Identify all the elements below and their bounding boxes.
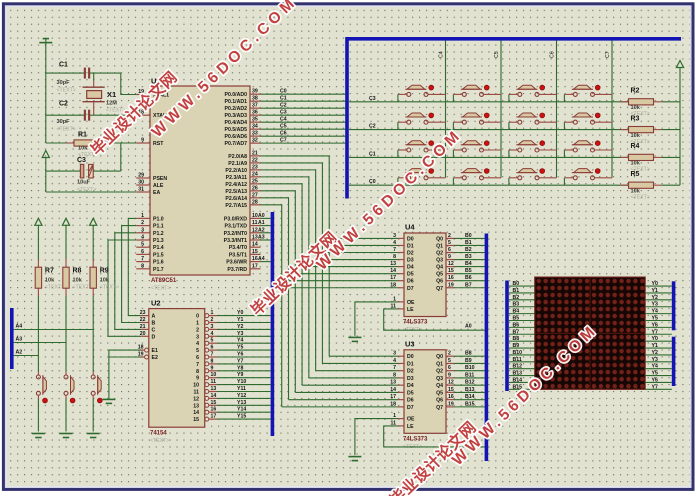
wire nets Y0-Y7 (matrix columns) [645,281,672,390]
svg-text:D2: D2 [407,251,414,257]
svg-text:RST: RST [153,141,164,147]
svg-text:6: 6 [448,365,451,371]
svg-text:A4: A4 [16,324,23,330]
ground button 1 [32,434,45,438]
svg-text:B6: B6 [513,322,520,328]
svg-text:P2.6/A14: P2.6/A14 [225,196,247,202]
svg-text:4: 4 [196,341,199,347]
svg-text:B5: B5 [465,268,472,274]
svg-text:D4: D4 [407,265,414,271]
wire net RST (R1/C3 to U1 pin 9) [46,143,137,171]
vcc arrow button 3 [90,218,97,225]
svg-text:A3: A3 [258,235,265,241]
svg-text:<TEXT>: <TEXT> [57,127,76,133]
svg-text:10k: 10k [73,278,83,284]
svg-text:<TEXT>: <TEXT> [100,285,119,291]
push button keypad row2 col5 [453,113,501,130]
svg-text:B7: B7 [513,329,520,335]
svg-text:19: 19 [448,401,454,407]
wire nets P2.0-P2.7 (to latches U4/U3) [261,156,399,407]
svg-text:P3.2/INT0: P3.2/INT0 [224,231,247,237]
svg-text:B5: B5 [513,316,520,322]
svg-text:7: 7 [393,365,396,371]
svg-text:3: 3 [211,324,214,330]
wire U4 LE to bus (net A0) [384,309,485,330]
svg-text:14: 14 [390,268,396,274]
svg-text:P2.0/A8: P2.0/A8 [228,154,247,160]
capacitor C3 (electrolytic 10uF) [77,157,121,193]
ground U3 OE [348,457,361,461]
svg-text:D2: D2 [407,369,414,375]
svg-text:14: 14 [390,387,396,393]
svg-text:10k: 10k [78,146,88,152]
svg-text:Y0: Y0 [652,336,658,342]
svg-text:A0: A0 [465,324,472,330]
svg-text:B11: B11 [513,357,522,363]
svg-text:B7: B7 [465,282,472,288]
ground U4 OE [348,337,361,341]
svg-text:Q3: Q3 [436,376,443,382]
svg-text:B8: B8 [513,336,520,342]
svg-text:10uF: 10uF [77,180,91,186]
svg-text:Q5: Q5 [436,390,443,396]
svg-text:74154: 74154 [150,431,167,437]
svg-text:36: 36 [252,110,258,116]
capacitor C1 [57,62,91,94]
svg-text:Y8: Y8 [237,365,243,371]
wire VCC rail right [679,68,681,186]
svg-text:A3: A3 [16,337,23,343]
ground symbol top-left [39,39,52,43]
svg-text:P2.1/A9: P2.1/A9 [228,161,247,167]
svg-text:P2.2/A10: P2.2/A10 [225,168,247,174]
svg-text:EA: EA [153,190,160,196]
svg-text:28: 28 [252,199,258,205]
svg-text:13: 13 [252,235,258,241]
svg-text:R9: R9 [100,268,109,275]
svg-text:1: 1 [211,310,214,316]
svg-text:B1: B1 [513,288,520,294]
svg-text:B12: B12 [513,364,523,370]
svg-text:P0.2/AD2: P0.2/AD2 [225,106,248,112]
push button keypad row0 col6 [509,169,557,186]
svg-text:2: 2 [211,317,214,323]
push button keypad row0 col5 [453,169,501,186]
svg-text:B0: B0 [513,281,520,287]
svg-text:15: 15 [448,387,454,393]
svg-text:B4: B4 [465,261,472,267]
bus matrix right lower [672,337,676,386]
svg-text:OE: OE [407,300,415,306]
svg-text:A2: A2 [258,227,265,233]
svg-text:26: 26 [252,185,258,191]
svg-text:18: 18 [390,401,396,407]
svg-text:<TEXT>: <TEXT> [45,285,64,291]
svg-text:P3.6/WR: P3.6/WR [226,260,247,266]
svg-text:9: 9 [196,376,199,382]
svg-text:D4: D4 [407,383,414,389]
svg-text:D3: D3 [407,258,414,264]
svg-text:C3: C3 [77,157,86,164]
svg-text:AT89C51: AT89C51 [151,278,177,284]
svg-text:Y13: Y13 [237,400,246,406]
svg-text:5: 5 [211,338,214,344]
svg-text:2: 2 [141,220,144,226]
svg-text:25: 25 [252,178,258,184]
svg-text:D6: D6 [407,398,414,404]
svg-text:Q2: Q2 [436,251,443,257]
svg-text:Y6: Y6 [237,352,243,358]
push button keypad row0 col7 [564,169,612,186]
svg-text:Y1: Y1 [652,343,658,349]
svg-text:P3.5/T1: P3.5/T1 [229,252,247,258]
wire button column 1 [37,225,39,431]
svg-text:Q4: Q4 [436,265,443,271]
svg-text:Q7: Q7 [436,286,443,292]
svg-text:B10: B10 [465,365,475,371]
svg-text:D7: D7 [407,405,414,411]
svg-text:B13: B13 [513,371,523,377]
ground U2 enables [102,399,115,403]
push button keypad row1 col5 [453,141,501,158]
svg-text:Y5: Y5 [652,316,658,322]
svg-text:P1.5: P1.5 [153,252,164,258]
bus A/Y vertical (right of U1) [271,212,275,436]
wire keypad columns C4-C7 [439,41,613,178]
svg-text:7: 7 [196,362,199,368]
push button keypad row1 col6 [509,141,557,158]
svg-text:16: 16 [448,394,454,400]
wire U3 OE to ground [355,419,398,456]
svg-text:P1.7: P1.7 [153,267,164,273]
svg-text:C7: C7 [605,51,611,58]
svg-text:OE: OE [407,417,415,423]
svg-text:P1.6: P1.6 [153,260,164,266]
svg-text:Q7: Q7 [436,405,443,411]
svg-text:21: 21 [140,324,146,330]
svg-text:P0.5/AD5: P0.5/AD5 [225,127,248,133]
svg-text:33: 33 [252,131,258,137]
svg-text:12: 12 [193,396,199,402]
svg-text:D0: D0 [407,354,414,360]
svg-text:Y7: Y7 [237,358,243,364]
svg-text:Y2: Y2 [237,324,243,330]
svg-text:4: 4 [141,235,144,241]
svg-text:R3: R3 [631,115,640,122]
svg-text:12: 12 [448,380,454,386]
decoder U2 74154 [138,299,217,445]
svg-text:C6: C6 [550,51,556,58]
wire U4 OE to ground [355,302,398,336]
svg-text:P0.3/AD3: P0.3/AD3 [225,113,248,119]
svg-text:16: 16 [252,256,258,262]
svg-text:24: 24 [252,171,258,177]
svg-text:C1: C1 [280,96,287,102]
svg-text:B13: B13 [465,387,475,393]
svg-text:2: 2 [196,327,199,333]
svg-text:23: 23 [252,164,258,170]
wire net E1/E2 to ground [109,350,141,399]
svg-text:PSEN: PSEN [153,176,167,182]
svg-text:6: 6 [196,355,199,361]
svg-text:P1.0: P1.0 [153,216,164,222]
svg-text:R2: R2 [631,88,640,95]
push button keypad row2 col7 [564,113,612,130]
svg-text:D3: D3 [407,376,414,382]
svg-text:C6: C6 [280,131,287,137]
svg-text:B2: B2 [513,295,520,301]
svg-text:D: D [152,334,156,340]
bus matrix right upper [672,281,676,330]
ground (crystal/reset rail, top-left) [45,39,47,143]
svg-text:13: 13 [390,261,396,267]
svg-text:17: 17 [252,263,258,269]
svg-text:Y6: Y6 [652,322,658,328]
wire button column 3 [92,225,94,431]
svg-text:2: 2 [448,233,451,239]
svg-text:R7: R7 [45,268,54,275]
svg-text:B4: B4 [513,309,520,315]
push button keypad row1 col4 [398,141,446,158]
svg-text:U4: U4 [405,223,415,232]
svg-text:37: 37 [252,103,258,109]
svg-text:Y2: Y2 [652,295,658,301]
svg-text:9: 9 [211,365,214,371]
svg-text:1: 1 [141,213,144,219]
svg-text:31: 31 [138,187,144,193]
svg-text:30: 30 [138,180,144,186]
svg-text:12M: 12M [106,101,117,107]
svg-text:P3.3/INT1: P3.3/INT1 [224,238,247,244]
wire button column 2 [65,225,67,431]
resistor R9 [90,259,119,296]
svg-text:B3: B3 [465,254,472,260]
vcc arrow left [42,151,49,158]
svg-text:<TEXT>: <TEXT> [151,286,170,292]
svg-text:8: 8 [393,372,396,378]
svg-text:27: 27 [252,192,258,198]
svg-text:30pF: 30pF [57,119,71,125]
svg-text:Q0: Q0 [436,354,443,360]
svg-text:Q0: Q0 [436,236,443,242]
svg-text:9: 9 [448,372,451,378]
svg-text:35: 35 [252,117,258,123]
svg-text:Q2: Q2 [436,369,443,375]
svg-text:P1.4: P1.4 [153,245,164,251]
svg-text:15: 15 [193,417,199,423]
svg-text:Q4: Q4 [436,383,443,389]
svg-text:Y9: Y9 [237,372,243,378]
watermarks [87,0,598,496]
svg-text:32: 32 [252,138,258,144]
push button keypad row1 col7 [564,141,612,158]
svg-text:P3.7/RD: P3.7/RD [227,267,247,273]
svg-text:18: 18 [390,282,396,288]
svg-text:B1: B1 [465,240,472,246]
svg-text:5: 5 [448,240,451,246]
svg-text:Y4: Y4 [652,364,658,370]
svg-text:13: 13 [390,380,396,386]
svg-text:3: 3 [141,227,144,233]
wire nets Y0-Y15 (U2 outputs to bus) [217,310,271,420]
led dot matrix display 16x16 [535,277,645,389]
bus B (right of latches) [485,234,489,462]
push button keypad row3 col4 [398,85,446,102]
svg-text:X1: X1 [107,90,116,99]
svg-text:P3.1/TXD: P3.1/TXD [225,224,248,230]
svg-text:A1: A1 [258,220,265,226]
resistor R5 [621,171,662,201]
svg-text:7: 7 [141,256,144,262]
wire resistors to VCC rail [662,102,681,185]
svg-text:16: 16 [448,275,454,281]
svg-text:29: 29 [138,173,144,179]
wire nets A0-A4 (P3 to address bus) [258,213,271,262]
svg-text:9: 9 [141,138,144,144]
svg-text:Y15: Y15 [237,414,246,420]
svg-text:D5: D5 [407,390,414,396]
bus keypad (top) [347,39,681,199]
svg-text:4: 4 [393,240,396,246]
svg-text:C3: C3 [369,96,376,102]
svg-text:B3: B3 [513,302,520,308]
vcc arrow button 2 [62,218,69,225]
svg-text:15: 15 [211,400,217,406]
svg-text:R5: R5 [631,171,640,178]
svg-text:Y11: Y11 [237,386,246,392]
svg-text:P0.0/AD0: P0.0/AD0 [225,92,248,98]
push button keypad row0 col4 [398,169,446,186]
svg-text:22: 22 [140,317,146,323]
svg-text:R1: R1 [78,132,87,139]
svg-text:7: 7 [393,247,396,253]
latch U3 74LS373 [390,339,454,450]
wire nets C0-C7 (P0 to keypad bus) [261,89,348,144]
svg-text:Y0: Y0 [652,281,658,287]
svg-text:3: 3 [393,233,396,239]
svg-text:Q6: Q6 [436,398,443,404]
svg-text:P1.2: P1.2 [153,231,164,237]
svg-text:C: C [152,327,156,333]
ground button 2 [60,434,73,438]
ground button 3 [87,434,100,438]
svg-text:B2: B2 [465,247,472,253]
push button keypad row2 col6 [509,113,557,130]
svg-text:Q1: Q1 [436,243,443,249]
svg-text:Y0: Y0 [237,310,243,316]
svg-text:P1.3: P1.3 [153,238,164,244]
svg-text:4: 4 [211,331,214,337]
svg-text:12: 12 [448,261,454,267]
svg-text:6: 6 [448,247,451,253]
svg-text:8: 8 [141,263,144,269]
svg-text:ALE: ALE [153,183,164,189]
svg-text:12: 12 [252,227,258,233]
svg-text:Y12: Y12 [237,393,246,399]
svg-text:B10: B10 [513,350,523,356]
svg-text:14: 14 [193,410,199,416]
push button keypad row3 col6 [509,85,557,102]
svg-text:P1.1: P1.1 [153,224,164,230]
svg-text:21: 21 [252,150,258,156]
svg-text:B0: B0 [465,233,472,239]
svg-text:Y10: Y10 [237,379,246,385]
svg-text:C2: C2 [369,124,376,130]
svg-text:Q5: Q5 [436,272,443,278]
power VCC arrow (reset circuit) [45,158,47,193]
svg-text:B14: B14 [513,377,523,383]
bus matrix left [505,281,509,392]
crystal X1 [83,81,126,114]
svg-text:0: 0 [196,314,199,320]
svg-text:D7: D7 [407,286,414,292]
capacitor C2 [57,101,91,133]
svg-text:B9: B9 [465,358,472,364]
svg-text:A4: A4 [258,256,265,262]
resistor R4 [621,143,662,173]
svg-text:9: 9 [448,254,451,260]
svg-text:C0: C0 [369,179,376,185]
svg-text:17: 17 [390,275,396,281]
svg-text:19: 19 [448,282,454,288]
svg-text:22: 22 [252,157,258,163]
resistor R3 [621,115,662,144]
svg-text:<TEXT>: <TEXT> [150,438,169,444]
svg-text:C4: C4 [280,117,287,123]
svg-text:B15: B15 [465,401,475,407]
svg-text:E2: E2 [152,355,158,361]
svg-text:C7: C7 [280,138,287,144]
wire nets B8-B15 (U3 outputs to bus) [454,351,485,408]
svg-text:4: 4 [393,358,396,364]
wire nets B0-B15 (matrix rows) [509,281,535,390]
svg-text:8: 8 [393,254,396,260]
bus A left (bottom-left) [10,308,14,369]
svg-text:5: 5 [141,242,144,248]
svg-text:E1: E1 [152,348,158,354]
svg-text:P2.4/A12: P2.4/A12 [225,182,247,188]
svg-text:14: 14 [252,242,258,248]
svg-text:11: 11 [211,379,217,385]
svg-text:<TEXT>: <TEXT> [631,195,650,201]
svg-text:A0: A0 [258,213,265,219]
svg-text:Y7: Y7 [652,384,658,390]
svg-text:6: 6 [141,249,144,255]
svg-text:13: 13 [211,386,217,392]
svg-text:6: 6 [211,345,214,351]
svg-text:Y3: Y3 [652,357,658,363]
svg-text:P0.7/AD7: P0.7/AD7 [225,141,248,147]
svg-text:P3.0/RXD: P3.0/RXD [224,216,247,222]
svg-text:Y1: Y1 [652,288,658,294]
vcc arrow top-right [676,61,683,68]
svg-text:C5: C5 [494,51,500,58]
svg-text:2: 2 [448,351,451,357]
svg-text:7: 7 [211,352,214,358]
svg-text:10: 10 [211,372,217,378]
svg-text:10: 10 [252,213,258,219]
svg-text:A: A [152,314,156,320]
svg-text:Y3: Y3 [652,302,658,308]
svg-text:Q3: Q3 [436,258,443,264]
svg-text:D5: D5 [407,272,414,278]
svg-text:R8: R8 [73,268,82,275]
svg-text:5: 5 [448,358,451,364]
svg-text:Y7: Y7 [652,329,658,335]
svg-text:B9: B9 [513,343,520,349]
svg-text:U2: U2 [151,299,161,308]
push button keypad row3 col7 [564,85,612,102]
